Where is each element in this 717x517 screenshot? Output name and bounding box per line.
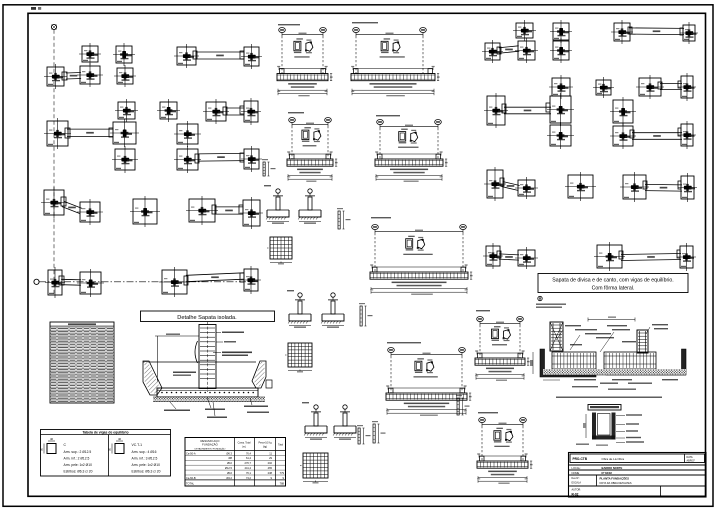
svg-text:Ø6.3: Ø6.3 bbox=[226, 451, 232, 455]
beam detail VG.T-1 P13=P14 bbox=[375, 115, 448, 182]
svg-text:Sapata de divisa e de canto, c: Sapata de divisa e de canto, com vigas d… bbox=[552, 278, 673, 284]
beam P16-P17 VC.T-1 bbox=[632, 133, 682, 140]
footing P10 bbox=[203, 99, 229, 124]
footing P26c bbox=[678, 173, 697, 202]
label P23 group bbox=[302, 402, 309, 403]
svg-text:TOTAL: TOTAL bbox=[186, 482, 195, 486]
svg-text:61,4: 61,4 bbox=[246, 456, 252, 460]
svg-text:Des.Nº:: Des.Nº: bbox=[572, 476, 581, 480]
footing P24b bbox=[515, 247, 538, 269]
svg-text:Ø10: Ø10 bbox=[227, 461, 232, 465]
svg-text:779: 779 bbox=[280, 471, 285, 475]
svg-text:202: 202 bbox=[268, 461, 273, 465]
small bar detail 6 bbox=[357, 425, 371, 444]
svg-text:(m): (m) bbox=[242, 446, 246, 449]
svg-text:Arm. pele: 1x2 Ø10: Arm. pele: 1x2 Ø10 bbox=[132, 463, 161, 467]
beam detail C P5-P6 bbox=[475, 310, 530, 381]
title block bbox=[569, 453, 707, 498]
footing P25b bbox=[594, 242, 625, 271]
beam P3-P4 45/50 bbox=[196, 52, 244, 59]
vertical axis line bbox=[53, 30, 55, 296]
svg-text:Ca-60-B: Ca-60-B bbox=[186, 476, 196, 480]
footing P24 bbox=[77, 269, 104, 297]
svg-text:FUNDAÇÃO: FUNDAÇÃO bbox=[202, 442, 219, 447]
footing P22b bracket bbox=[620, 172, 649, 202]
mesh grid detail 3 bbox=[300, 453, 328, 483]
beam P10-P11 45/50 bbox=[226, 108, 244, 115]
svg-text:76,1: 76,1 bbox=[246, 471, 252, 475]
column cross-section detail bbox=[576, 405, 644, 446]
svg-text:Estribos: Ø6.3 c/ 20: Estribos: Ø6.3 c/ 20 bbox=[64, 470, 93, 474]
footing P20b bbox=[565, 172, 596, 201]
beam P12-P13 VC.T-1 bbox=[504, 107, 551, 114]
footing P5b bracket bbox=[482, 40, 503, 63]
footing P8b bbox=[549, 75, 573, 99]
footing P20 bbox=[130, 196, 160, 227]
svg-text:ESCALA: ESCALA bbox=[572, 482, 582, 485]
svg-text:(kg): (kg) bbox=[263, 446, 267, 449]
footing P22 bbox=[239, 197, 263, 229]
rebar schedule table bbox=[50, 322, 114, 403]
footing P17b bbox=[678, 121, 696, 149]
footing P9b bbox=[593, 77, 614, 98]
footing P12b bracket bbox=[484, 93, 508, 128]
footing P2b bbox=[611, 20, 633, 44]
footing P3b bbox=[550, 20, 572, 43]
svg-text:788: 788 bbox=[280, 482, 285, 486]
footing P26 bbox=[240, 266, 261, 294]
svg-text:Arm. inf.: 3 Ø12.5: Arm. inf.: 3 Ø12.5 bbox=[132, 457, 158, 461]
footing P14 bbox=[174, 121, 201, 147]
svg-text:Detalhe Sapata isolada.: Detalhe Sapata isolada. bbox=[177, 315, 237, 321]
footing P1b bbox=[513, 20, 536, 41]
pedestal detail P25 right bbox=[321, 293, 344, 328]
svg-text:Peso+10 Kg: Peso+10 Kg bbox=[258, 442, 272, 445]
beam detail VG.T-1 P3=P4 bbox=[351, 22, 440, 96]
axis bubble top bbox=[51, 24, 56, 29]
svg-text:Arm. pele: 1x2 Ø10: Arm. pele: 1x2 Ø10 bbox=[64, 463, 93, 467]
beam detail VG.T-1 P1=P2 bbox=[277, 24, 333, 96]
footing P1 bbox=[79, 43, 101, 65]
small bar detail 1 bbox=[337, 208, 351, 229]
svg-text:Nº 84/02: Nº 84/02 bbox=[602, 471, 613, 475]
small bar detail 5 bbox=[262, 159, 276, 176]
label P25 group bbox=[287, 290, 294, 291]
label P16 group bbox=[264, 185, 271, 186]
pedestal detail P25 left bbox=[288, 293, 311, 328]
footing P4b bbox=[680, 22, 698, 44]
svg-text:Com fôrma lateral.: Com fôrma lateral. bbox=[592, 286, 635, 292]
beam detail C P25-P26 bbox=[370, 217, 473, 295]
footing P8 bbox=[115, 99, 138, 122]
tabela de vigas de equilibrio bbox=[40, 430, 170, 477]
svg-text:NOME: NOME bbox=[572, 471, 580, 475]
footing P23 bracket bbox=[45, 267, 65, 298]
svg-text:DETALHAMENTO FUNDAÇÃO: DETALHAMENTO FUNDAÇÃO bbox=[195, 448, 226, 451]
footing P16 bbox=[174, 146, 201, 173]
beam detail C P15-P16 bbox=[287, 112, 338, 182]
svg-text:74,2: 74,2 bbox=[246, 476, 252, 480]
svg-text:R-02: R-02 bbox=[572, 493, 579, 497]
svg-text:Ø12.5: Ø12.5 bbox=[225, 466, 233, 470]
corner footing section detail bbox=[530, 317, 686, 399]
footing P19 bbox=[77, 199, 103, 225]
svg-text:VC.T-1: VC.T-1 bbox=[132, 443, 143, 447]
footing P4 bbox=[240, 44, 262, 69]
resumo aco fundacoes table bbox=[185, 438, 286, 487]
beam P2-P4 VC.T-1 bbox=[629, 28, 684, 35]
beam P12-P13 45/50 bbox=[67, 129, 113, 136]
footing P7b bbox=[550, 38, 572, 63]
beam detail VC.T-1 P19-P18 bbox=[477, 412, 533, 484]
footing P26b bbox=[677, 243, 696, 271]
footing P18b bracket bbox=[484, 167, 506, 201]
svg-text:276,7: 276,7 bbox=[245, 461, 252, 465]
footing P6 bbox=[77, 63, 103, 87]
svg-text:Total: Total bbox=[278, 444, 283, 447]
pedestal detail P16 right bbox=[298, 189, 321, 224]
pedestal detail P23 left bbox=[304, 405, 327, 440]
svg-text:76,4: 76,4 bbox=[246, 451, 252, 455]
horizontal axis line bbox=[39, 281, 259, 283]
footing P17 bbox=[240, 146, 262, 172]
note text under circle bbox=[536, 304, 566, 308]
footing P10b bbox=[636, 75, 664, 99]
footing P13b bbox=[546, 93, 574, 126]
svg-text:40: 40 bbox=[118, 437, 122, 441]
svg-text:NOTA DA OBRA DETALHES: NOTA DA OBRA DETALHES bbox=[600, 482, 632, 485]
svg-text:Arm. sup.: 4 Ø16: Arm. sup.: 4 Ø16 bbox=[132, 450, 157, 454]
pedestal detail P16 left bbox=[266, 189, 289, 224]
svg-text:Tabela de vigas de equilíbrio: Tabela de vigas de equilíbrio bbox=[82, 431, 128, 435]
footing P15 bbox=[112, 146, 138, 173]
svg-text:465: 465 bbox=[268, 466, 273, 470]
small bar detail 2 bbox=[359, 303, 373, 326]
svg-text:Ø16: Ø16 bbox=[227, 471, 232, 475]
beam P5-P6 C bbox=[499, 46, 520, 53]
svg-text:Ø4.2: Ø4.2 bbox=[226, 476, 232, 480]
beam P25-P26 C bbox=[621, 254, 681, 261]
footing P25 bbox=[159, 267, 190, 297]
beam P23-P24 C bbox=[499, 254, 519, 260]
beam P22-P26 VC.T-1 bbox=[645, 184, 682, 191]
small bar detail 3 bbox=[372, 421, 386, 443]
beam P23-P24 45/50 bbox=[61, 279, 81, 285]
svg-text:441,4: 441,4 bbox=[245, 466, 252, 470]
axis bubble left bbox=[34, 279, 39, 284]
beam P10-P11 VC.T-1 bbox=[660, 83, 682, 89]
svg-text:Ø8: Ø8 bbox=[229, 456, 233, 460]
footing P11b bbox=[678, 73, 696, 101]
svg-text:AUTOR:: AUTOR: bbox=[572, 489, 582, 492]
footing P12 bracket bbox=[44, 118, 71, 149]
beam P18-P19 VC.T-1 bbox=[501, 182, 519, 191]
footing P13 bbox=[109, 119, 139, 147]
svg-text:BAIRRO NORTE: BAIRRO NORTE bbox=[602, 466, 623, 470]
beam detail VC.T-1 P3=P4 e P16=P17 bbox=[386, 342, 472, 416]
beam P5-P6 45/40 bbox=[66, 73, 81, 80]
svg-text:Ca-50-A: Ca-50-A bbox=[186, 451, 196, 455]
footing P3 bbox=[174, 44, 199, 68]
svg-text:Arm. sup.: 2 Ø12.5: Arm. sup.: 2 Ø12.5 bbox=[64, 450, 92, 454]
beam P21-P22 45/50 bbox=[215, 207, 243, 214]
mesh grid detail 2 bbox=[285, 343, 312, 372]
footing P16b bbox=[610, 123, 636, 149]
beam P25-P26 45/50 bbox=[186, 273, 244, 282]
footing P7 bbox=[114, 65, 136, 87]
fold mark bbox=[31, 7, 41, 10]
footing P18 bracket bbox=[41, 187, 67, 218]
footing P6b bbox=[515, 38, 538, 63]
footing P9 bbox=[157, 99, 180, 122]
footing P2 bbox=[113, 43, 135, 66]
svg-text:PLANTA FUNDAÇÕES: PLANTA FUNDAÇÕES bbox=[600, 476, 630, 481]
svg-text:40: 40 bbox=[50, 437, 54, 441]
svg-text:Obra de Lá Obra: Obra de Lá Obra bbox=[602, 457, 625, 461]
svg-text:Comp. Total: Comp. Total bbox=[238, 442, 251, 445]
svg-text:238: 238 bbox=[268, 471, 273, 475]
svg-text:Estribos: Ø6.3 c/ 20: Estribos: Ø6.3 c/ 20 bbox=[132, 470, 161, 474]
note box sapata de divisa bbox=[538, 274, 688, 293]
svg-text:PRO-CTB: PRO-CTB bbox=[573, 457, 588, 461]
footing P21 bbox=[186, 196, 218, 225]
footing P23b bracket bbox=[483, 243, 503, 269]
footing P15b bbox=[547, 122, 574, 149]
footing P11 bbox=[240, 98, 261, 125]
mesh grid detail 1 bbox=[267, 237, 292, 264]
small bar detail 4 bbox=[456, 395, 470, 415]
beam P18-P19 45/50 bbox=[62, 201, 82, 213]
footing P5 bracket bbox=[44, 64, 67, 89]
svg-text:Arm. inf.: 2 Ø12.5: Arm. inf.: 2 Ø12.5 bbox=[64, 457, 90, 461]
footing P19b bbox=[515, 177, 538, 199]
svg-text:ABR/07: ABR/07 bbox=[687, 460, 696, 463]
isolated footing detail bbox=[141, 311, 275, 418]
footing P14b bbox=[610, 97, 636, 126]
svg-text:LOCAL:: LOCAL: bbox=[572, 466, 582, 470]
pedestal detail P23 right bbox=[333, 405, 356, 440]
note symbol circle bbox=[538, 296, 542, 300]
beam P16-P17 45/50 bbox=[198, 153, 244, 161]
